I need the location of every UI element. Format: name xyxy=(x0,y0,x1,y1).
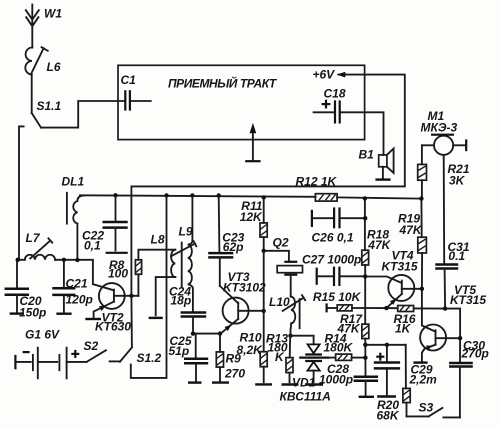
tank wire to VT2 base xyxy=(55,260,114,291)
crystal Q2 xyxy=(264,236,303,297)
svg-text:VD1: VD1 xyxy=(292,376,316,390)
node Q2 branch junction xyxy=(262,249,266,253)
capacitor C1 xyxy=(121,73,151,111)
resistor R12 xyxy=(296,175,338,202)
varicap VD1 KVS111A xyxy=(280,336,331,404)
capacitor C29 labels xyxy=(409,363,438,387)
svg-text:L9: L9 xyxy=(179,225,193,239)
svg-text:KT630: KT630 xyxy=(95,320,131,334)
svg-text:270: 270 xyxy=(224,367,245,381)
svg-text:C21: C21 xyxy=(66,277,88,291)
node C26 R18 junction xyxy=(363,216,367,220)
svg-text:L10: L10 xyxy=(269,295,290,309)
resistor R16 xyxy=(386,306,445,336)
capacitor C27 xyxy=(302,253,365,287)
svg-text:8,2K: 8,2K xyxy=(237,343,264,357)
node VT3 collector junction xyxy=(262,309,266,313)
resistor R8 xyxy=(108,250,142,296)
svg-text:0.1: 0.1 xyxy=(448,249,465,263)
svg-text:150p: 150p xyxy=(19,306,46,320)
svg-text:1000p: 1000p xyxy=(319,373,353,387)
resistor R9 xyxy=(212,334,245,383)
svg-text:62p: 62p xyxy=(223,240,244,254)
node C27 VT4 junction xyxy=(363,274,367,278)
svg-text:180K: 180K xyxy=(324,341,354,355)
switch S3 xyxy=(407,401,460,418)
wire R18 node down through R17 xyxy=(364,277,366,325)
svg-text:G1 6V: G1 6V xyxy=(25,328,60,342)
svg-text:МКЭ-3: МКЭ-3 xyxy=(421,121,458,135)
svg-text:L7: L7 xyxy=(26,231,41,245)
node tank DL1 junction xyxy=(75,258,79,262)
transistor VT4 xyxy=(365,248,422,308)
antenna W1 xyxy=(26,5,63,48)
resistor R17 xyxy=(337,312,369,345)
node R17 bottom junction xyxy=(363,343,367,347)
svg-text:12K: 12K xyxy=(240,210,263,224)
svg-text:C27 1000p: C27 1000p xyxy=(302,253,361,267)
tank wire left xyxy=(17,259,25,261)
svg-text:3K: 3K xyxy=(449,174,466,188)
transistor VT2 xyxy=(85,283,138,333)
svg-text:C1: C1 xyxy=(121,73,137,87)
wire R17 node to R14 node xyxy=(364,345,366,358)
node R14 C28 junction xyxy=(363,356,367,360)
resistor R15 xyxy=(313,290,362,311)
capacitor C21 xyxy=(52,260,93,314)
transistor VT5 xyxy=(413,283,486,363)
capacitor C18 xyxy=(314,87,346,124)
capacitor C20 xyxy=(5,260,47,320)
resistor R19 xyxy=(398,199,426,289)
inductor DL1 xyxy=(62,175,85,224)
transformer winding L8 xyxy=(149,233,176,318)
svg-text:ПРИЕМНЫЙ ТРАКТ: ПРИЕМНЫЙ ТРАКТ xyxy=(168,75,278,91)
svg-text:KT3102: KT3102 xyxy=(223,281,266,295)
node electrolytic junction xyxy=(385,343,389,347)
node bus C22 junction xyxy=(113,193,117,197)
node VT5 C30 junction xyxy=(458,336,462,340)
resistor R20 xyxy=(377,345,411,423)
wire DL1 to tank node xyxy=(76,224,78,260)
svg-text:S1.1: S1.1 xyxy=(37,99,62,113)
svg-text:47K: 47K xyxy=(337,322,361,336)
svg-text:R12 1K: R12 1K xyxy=(296,175,338,189)
svg-text:270p: 270p xyxy=(461,347,489,361)
svg-text:B1: B1 xyxy=(359,148,375,162)
resistor R18 xyxy=(362,198,392,276)
node VT4 base junction xyxy=(384,306,388,310)
node tank left junction xyxy=(16,258,20,262)
wire R17 node right xyxy=(365,344,405,346)
transformer core xyxy=(181,243,183,287)
main bus wire right xyxy=(337,197,421,198)
svg-text:S1.2: S1.2 xyxy=(137,351,162,365)
inductor L7 xyxy=(25,231,55,260)
switch S1.2 xyxy=(120,296,162,365)
svg-text:120p: 120p xyxy=(66,293,93,307)
microphone M1 MKE-3 xyxy=(421,109,467,155)
switch S1.1 xyxy=(32,99,62,128)
wire R16 node to VT5 emitter net xyxy=(445,309,460,339)
svg-text:51p: 51p xyxy=(169,344,190,358)
wire C18 to B1 xyxy=(340,112,384,155)
wire L6 to S1.1 xyxy=(31,75,33,114)
capacitor C28 xyxy=(319,358,378,397)
inductor L10 xyxy=(269,295,305,336)
battery G1 xyxy=(15,328,86,379)
wire C24/R9 junction xyxy=(193,333,220,335)
node bus C23 junction xyxy=(217,193,221,197)
node bus S1.2 junction xyxy=(164,193,168,197)
node L10 bottom xyxy=(288,334,292,338)
svg-text:S2: S2 xyxy=(84,339,99,353)
svg-text:47K: 47K xyxy=(399,223,423,237)
resistor R11 xyxy=(240,197,268,237)
svg-text:S3: S3 xyxy=(419,401,434,415)
resistor R13 xyxy=(266,332,299,385)
line R15 R16 xyxy=(327,303,338,312)
node VT2 collector xyxy=(129,294,133,298)
svg-text:DL1: DL1 xyxy=(62,175,85,189)
receiver block box xyxy=(118,65,365,139)
svg-text:КВС111А: КВС111А xyxy=(280,390,331,404)
node VT4 collector junction xyxy=(420,287,424,291)
capacitor C31 xyxy=(435,240,470,309)
wire R8 to L8 xyxy=(138,249,175,251)
speaker B1 xyxy=(359,148,394,180)
resistor R10 xyxy=(237,311,273,385)
svg-text:1K: 1K xyxy=(395,322,412,336)
svg-text:W1: W1 xyxy=(44,7,62,21)
svg-text:100: 100 xyxy=(108,267,128,281)
svg-text:2,2m: 2,2m xyxy=(409,373,438,387)
wire R11 to VT3 collector node xyxy=(263,237,265,311)
node bus L9 junction xyxy=(190,193,194,197)
resistor R21 xyxy=(418,145,470,197)
capacitor C25 xyxy=(169,334,209,383)
capacitor C26 xyxy=(312,207,365,244)
wire M1 to C31 xyxy=(443,155,446,264)
resistor R14 xyxy=(324,332,366,361)
node bus R11 junction xyxy=(262,195,266,199)
wire S1.2 throw to bus xyxy=(131,195,167,378)
svg-text:L6: L6 xyxy=(47,60,61,74)
capacitor C22 xyxy=(82,195,128,253)
capacitor C30 xyxy=(449,338,489,417)
inductor L6 xyxy=(25,47,61,74)
switch S2 xyxy=(84,339,106,362)
svg-text:0,1: 0,1 xyxy=(84,239,101,253)
node R16 C31 junction xyxy=(443,306,447,310)
svg-text:68K: 68K xyxy=(377,409,400,423)
+6V supply rail xyxy=(131,68,404,296)
svg-text:Q2: Q2 xyxy=(273,236,289,250)
svg-text:C26 0,1: C26 0,1 xyxy=(312,231,354,245)
node tank C21 junction xyxy=(62,258,66,262)
svg-text:KT315: KT315 xyxy=(382,260,418,274)
wire S1.1 throw to L7 node xyxy=(19,126,24,259)
tuning arrow L8/L9 xyxy=(171,241,196,256)
transistor VT3 xyxy=(220,270,266,334)
transformer winding L9 xyxy=(179,195,193,312)
svg-text:KT315: KT315 xyxy=(450,293,486,307)
svg-text:K: K xyxy=(275,350,285,364)
wire R15 to VT4 base xyxy=(352,307,386,309)
node bus R18 junction xyxy=(363,196,367,200)
main bus wire left xyxy=(80,195,316,197)
svg-text:47K: 47K xyxy=(367,238,391,252)
wire S2 to S1.2 xyxy=(110,360,120,362)
node bus R21 junction xyxy=(419,196,423,200)
capacitor C23 xyxy=(208,196,244,286)
svg-text:+6V: +6V xyxy=(313,68,336,82)
svg-text:R15 10K: R15 10K xyxy=(313,290,362,304)
capacitor C24 xyxy=(169,285,206,334)
svg-text:18p: 18p xyxy=(171,294,192,308)
capacitor electrolytic at R17 node xyxy=(374,345,400,397)
svg-text:C18: C18 xyxy=(324,87,346,101)
input arrow terminal xyxy=(245,123,260,161)
wire S1.1 to C1 xyxy=(41,101,125,128)
svg-text:L8: L8 xyxy=(151,233,165,247)
